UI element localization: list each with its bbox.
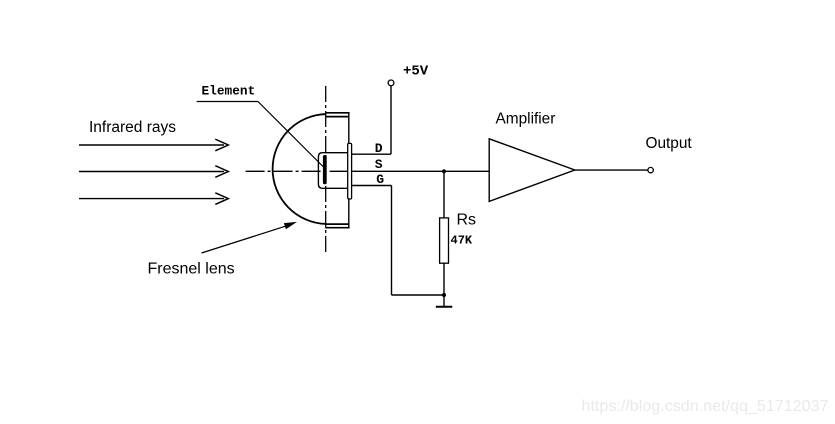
ground symbol — [436, 295, 453, 307]
svg-text:Infrared rays: Infrared rays — [89, 119, 176, 136]
svg-text:D: D — [375, 141, 383, 156]
fresnel lens leader arrow — [202, 222, 298, 253]
svg-text:Fresnel lens: Fresnel lens — [148, 261, 235, 278]
svg-text:+5V: +5V — [403, 64, 429, 80]
sensor body fill — [326, 112, 349, 228]
fresnel lens dome arc — [273, 114, 327, 224]
wire G to ground node — [392, 294, 445, 296]
element leader line — [258, 102, 324, 168]
wire S to resistor — [443, 171, 445, 218]
+5V terminal circle — [388, 80, 394, 86]
element label underline — [197, 101, 258, 103]
sensor body right edge — [348, 112, 350, 229]
infrared ray arrow 1 — [79, 139, 228, 151]
svg-text:Element: Element — [202, 84, 256, 99]
wire pin D — [352, 153, 391, 155]
output terminal circle — [648, 167, 653, 172]
svg-text:47K: 47K — [451, 234, 473, 248]
node junction ground — [442, 293, 446, 297]
element housing (TO-can) — [318, 153, 348, 189]
svg-text:S: S — [375, 157, 383, 172]
svg-text:Output: Output — [646, 135, 693, 152]
svg-text:https://blog.csdn.net/qq_51712: https://blog.csdn.net/qq_51712037 — [582, 397, 829, 415]
wire G down — [391, 186, 393, 296]
wire +5V vertical — [390, 86, 392, 154]
sensor flange — [348, 143, 352, 199]
wire resistor to ground rail — [443, 263, 445, 295]
sensor body top double line — [325, 113, 349, 117]
svg-text:G: G — [376, 172, 384, 187]
resistor Rs body — [440, 218, 449, 263]
pyroelectric element (black bar) — [323, 155, 327, 184]
infrared ray arrow 2 — [79, 166, 228, 178]
horizontal centerline (dash-dot) — [246, 170, 351, 172]
node junction S/Rs — [442, 169, 446, 173]
sensor body bottom double line — [325, 224, 349, 228]
svg-text:Rs: Rs — [457, 212, 477, 229]
wire pin G — [352, 185, 392, 187]
infrared ray arrow 3 — [79, 193, 228, 205]
svg-text:Amplifier: Amplifier — [496, 111, 556, 128]
wire pin S to amplifier — [352, 170, 490, 172]
vertical centerline (dash-dot) — [325, 86, 327, 255]
wire amplifier output — [575, 169, 648, 171]
op-amp U1 amplifier triangle — [489, 139, 575, 202]
